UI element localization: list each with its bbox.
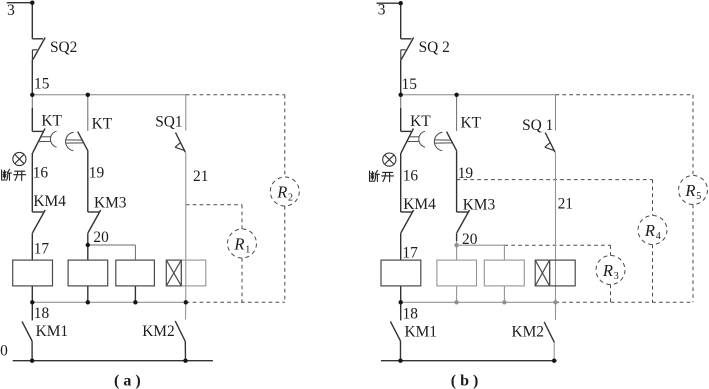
svg-text:KT: KT (92, 115, 113, 132)
svg-text:19: 19 (89, 165, 105, 182)
svg-text:21: 21 (558, 196, 573, 213)
svg-text:15: 15 (402, 76, 418, 93)
svg-text:20: 20 (462, 231, 478, 248)
svg-text:0: 0 (0, 342, 8, 359)
svg-text:SQ 1: SQ 1 (522, 117, 553, 134)
svg-text:KT: KT (461, 114, 482, 131)
svg-text:3: 3 (614, 271, 619, 282)
svg-text:20: 20 (93, 229, 109, 246)
svg-text:KM2: KM2 (142, 323, 175, 340)
svg-text:16: 16 (33, 165, 49, 182)
svg-text:KT: KT (410, 113, 431, 130)
svg-text:( a ): ( a ) (114, 373, 141, 389)
svg-text:KM2: KM2 (512, 324, 545, 341)
svg-text:16: 16 (403, 167, 419, 184)
svg-text:3: 3 (7, 2, 15, 19)
svg-text:17: 17 (402, 245, 418, 262)
svg-text:1: 1 (245, 245, 250, 256)
svg-text:R: R (233, 235, 244, 254)
svg-text:KM3: KM3 (94, 195, 127, 212)
svg-text:KT: KT (41, 113, 62, 130)
svg-text:KM4: KM4 (33, 193, 66, 210)
svg-text:18: 18 (403, 305, 419, 322)
svg-text:( b ): ( b ) (451, 373, 479, 389)
svg-text:SQ1: SQ1 (155, 113, 182, 130)
svg-text:R: R (276, 183, 287, 202)
svg-text:15: 15 (34, 76, 50, 93)
svg-text:19: 19 (458, 165, 474, 182)
svg-text:R: R (684, 181, 695, 200)
svg-text:4: 4 (656, 231, 661, 242)
svg-text:5: 5 (696, 191, 701, 202)
svg-text:17: 17 (34, 241, 50, 258)
svg-text:R: R (602, 261, 613, 280)
svg-text:KM3: KM3 (463, 197, 496, 214)
svg-text:2: 2 (288, 193, 293, 204)
svg-text:SQ2: SQ2 (50, 39, 77, 56)
svg-text:KM1: KM1 (36, 323, 69, 340)
svg-text:3: 3 (378, 2, 386, 19)
svg-text:KM4: KM4 (403, 196, 436, 213)
svg-text:R: R (644, 221, 655, 240)
svg-text:21: 21 (193, 168, 208, 185)
svg-text:KM1: KM1 (405, 324, 438, 341)
svg-text:SQ 2: SQ 2 (419, 39, 450, 56)
svg-text:18: 18 (34, 305, 50, 322)
